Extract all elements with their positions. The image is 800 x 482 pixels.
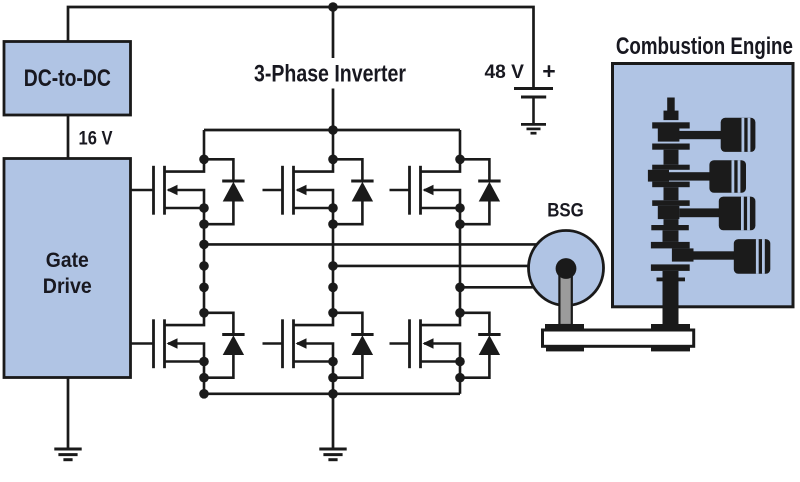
svg-text:BSG: BSG (547, 201, 584, 222)
wire: 16V link DC-to-DC to Gate Drive (67, 115, 70, 158)
block: Combustion Engine box (613, 64, 794, 307)
diode D1 (204, 159, 245, 224)
block: DC-to-DC converter (4, 42, 131, 116)
engine pulley shaft pin (657, 278, 686, 282)
ground: inverter (319, 449, 346, 460)
wire: inverter bus drop (above label) (332, 7, 335, 58)
wire: 48V top bus from DC-to-DC to battery (68, 7, 534, 89)
battery BT1: 48V cell (514, 89, 553, 98)
BSG hub (556, 258, 577, 279)
transistor Q5 (low side, phase B) (283, 313, 334, 368)
transistor Q2 (high side, phase B) (283, 159, 334, 214)
ground: battery (521, 124, 546, 133)
svg-text:3-Phase Inverter: 3-Phase Inverter (254, 61, 406, 88)
ground: gate drive (54, 449, 81, 460)
diode D6 (460, 313, 501, 378)
wire: Q5 gate stub (263, 342, 283, 345)
BSG shaft (559, 268, 571, 325)
wire: battery to ground (532, 97, 535, 124)
junction dots: leg B (328, 155, 338, 399)
pulley flange: BSG lower (546, 346, 584, 351)
diode D4 (204, 313, 245, 378)
piston 2 (669, 160, 746, 193)
transistor Q4 (low side, phase A) (154, 313, 205, 368)
diode D2 (333, 159, 374, 224)
wire: leg C verticals (459, 130, 462, 394)
svg-text:Drive: Drive (43, 274, 92, 298)
belt: pulley belt between BSG and engine (543, 330, 694, 346)
svg-text:16 V: 16 V (79, 129, 113, 150)
piston 1 (679, 118, 756, 152)
wire: leg A verticals (203, 130, 206, 394)
wire: leg B verticals (332, 130, 335, 394)
pulley flange: engine upper (651, 324, 690, 330)
svg-text:+: + (542, 58, 555, 84)
transistor Q1 (high side, phase A) (154, 159, 205, 214)
wire: inverter top rail (204, 129, 460, 132)
wire: inverter bottom rail (204, 392, 460, 395)
wire: phase C line to BSG (460, 286, 556, 289)
piston 4 (694, 239, 771, 274)
wire: bottom rail to ground (332, 394, 335, 449)
junction dots: leg C (455, 155, 465, 383)
wire: phase A line to BSG (204, 243, 556, 246)
wire: Q2 gate stub (263, 189, 283, 192)
engine pulley shaft (663, 271, 679, 325)
svg-text:Combustion Engine: Combustion Engine (616, 33, 793, 60)
wire: inverter bus drop (below label) (332, 89, 335, 131)
transistor Q3 (high side, phase C) (410, 159, 461, 214)
BSG machine: circle (529, 231, 604, 306)
diode D5 (333, 313, 374, 378)
wire: phase B line to BSG (333, 265, 556, 268)
junction dots: leg A (199, 155, 209, 399)
wire: Gate Drive to ground (67, 378, 70, 450)
wire: Q1 gate lead from Gate Drive (131, 189, 154, 192)
svg-text:DC-to-DC: DC-to-DC (24, 65, 111, 92)
svg-text:48 V: 48 V (485, 62, 525, 83)
wire: Q4 gate lead from Gate Drive (131, 342, 154, 345)
wire: Q6 gate stub (390, 342, 410, 345)
pulley flange: engine lower (651, 346, 690, 351)
block: Gate Drive (4, 159, 131, 378)
pulley flange: BSG upper (545, 324, 584, 330)
piston 3 (679, 197, 755, 231)
junction: top bus node (328, 2, 338, 12)
diode D3 (460, 159, 501, 224)
transistor Q6 (low side, phase C) (410, 313, 461, 368)
svg-text:Gate: Gate (46, 248, 89, 272)
junction: top rail center node (328, 125, 338, 135)
wire: Q3 gate stub (390, 189, 410, 192)
crankshaft (648, 98, 694, 271)
